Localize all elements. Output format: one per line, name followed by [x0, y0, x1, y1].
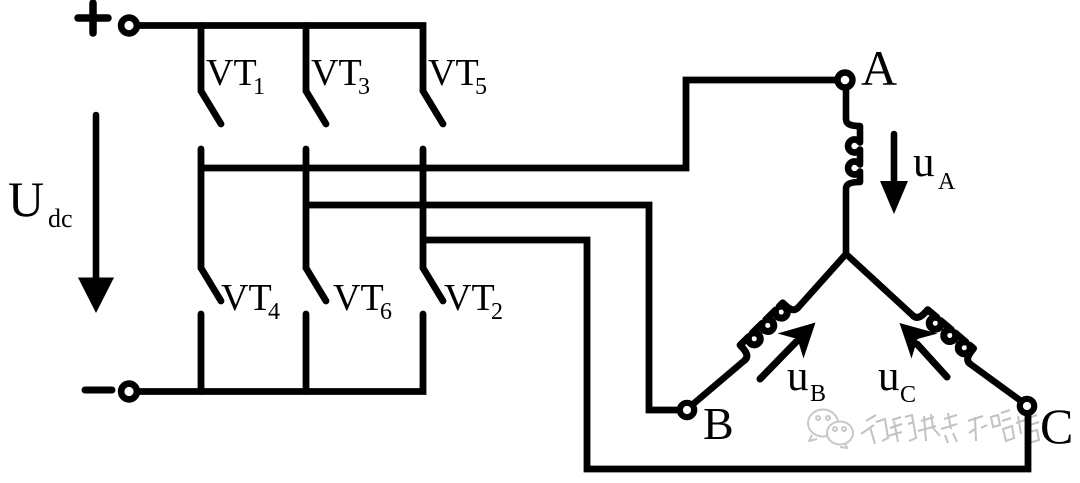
svg-text:u: u — [878, 353, 900, 400]
transistor VT1 — [201, 26, 221, 125]
transistor VT4 — [201, 268, 221, 392]
wire top bus — [140, 26, 423, 92]
svg-text:VT: VT — [444, 277, 495, 319]
svg-text:B: B — [810, 381, 826, 407]
wire phase B output — [306, 205, 678, 410]
arrow U dc — [78, 115, 114, 313]
wire leg1 mid — [198, 149, 205, 268]
svg-text:C: C — [1040, 398, 1073, 454]
transistor VT6 — [306, 268, 326, 392]
svg-text:VT: VT — [428, 52, 479, 94]
minus symbol — [85, 387, 112, 394]
terminal node C — [1020, 399, 1034, 413]
wire star to B coil — [798, 254, 846, 308]
watermark text (stylized) — [861, 408, 1039, 444]
terminal node A — [838, 73, 853, 88]
terminal circle minus — [121, 384, 137, 400]
transistor VT2 — [423, 268, 443, 301]
wire B terminal to coil — [692, 360, 745, 405]
svg-text:VT: VT — [311, 52, 362, 94]
svg-text:U: U — [8, 171, 44, 227]
transistor VT3 — [306, 26, 326, 125]
inductor phase B — [735, 298, 797, 360]
terminal node B — [680, 403, 694, 417]
svg-text:A: A — [938, 169, 956, 195]
svg-text:B: B — [703, 398, 734, 449]
svg-text:dc: dc — [48, 204, 73, 233]
svg-text:VT: VT — [206, 52, 257, 94]
wire leg3 mid — [420, 149, 427, 268]
wire bottom bus — [140, 314, 423, 392]
svg-text:u: u — [913, 139, 935, 186]
svg-text:A: A — [861, 40, 897, 96]
plus symbol — [78, 3, 108, 33]
arrow u_C — [900, 323, 948, 377]
wire leg2 mid — [303, 149, 310, 268]
svg-text:VT: VT — [333, 277, 384, 319]
wire C terminal to coil — [970, 364, 1021, 401]
svg-text:4: 4 — [268, 299, 280, 325]
svg-text:6: 6 — [380, 299, 392, 325]
svg-text:VT: VT — [221, 277, 272, 319]
svg-text:5: 5 — [475, 74, 487, 100]
arrow u_A — [880, 134, 908, 214]
transistor VT5 — [423, 91, 443, 124]
wire coil A to star — [843, 190, 850, 254]
svg-text:1: 1 — [253, 74, 265, 100]
wire phase C output — [423, 240, 1028, 469]
svg-text:u: u — [787, 353, 809, 400]
inductor phase C — [913, 305, 979, 363]
svg-text:2: 2 — [491, 299, 503, 325]
terminal circle plus — [121, 18, 137, 34]
inductor phase A — [846, 119, 860, 189]
watermark wechat icon — [808, 410, 853, 449]
svg-text:C: C — [900, 382, 916, 408]
wire A to coil — [843, 88, 850, 119]
wire phase A output — [201, 80, 836, 168]
svg-text:3: 3 — [358, 74, 370, 100]
arrow u_B — [760, 323, 816, 380]
wire star to C coil — [846, 254, 913, 316]
